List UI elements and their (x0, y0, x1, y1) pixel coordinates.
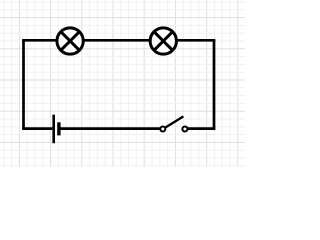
battery negative plate (short) (57, 122, 60, 135)
lamp L1 (57, 28, 83, 54)
battery positive plate (long) (52, 115, 55, 144)
battery V1 (54, 115, 59, 144)
wire bottom-left (to battery positive plate) (22, 127, 52, 130)
wire left side (22, 40, 25, 128)
wire bottom-middle (battery to switch) (60, 127, 163, 130)
wire top (node A: lamp L1 / lamp L2 supply) (22, 39, 215, 42)
wire right side (213, 40, 216, 128)
switch contact right (182, 127, 187, 132)
lamp L2 (150, 28, 176, 54)
switch S1 (open) (160, 116, 187, 131)
switch contact left (160, 127, 165, 132)
wire bottom-right (switch to right side) (185, 127, 215, 130)
switch lever (164, 116, 183, 128)
